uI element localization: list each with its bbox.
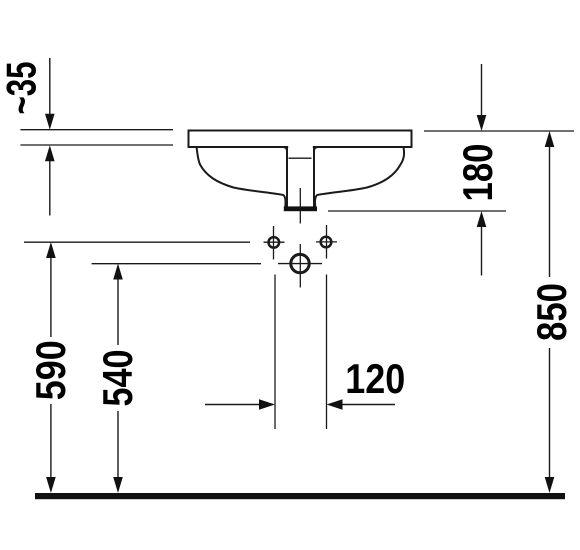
centerline below drain [299, 188, 301, 224]
rim-to-column corner right [314, 147, 318, 151]
rim top extension line right [424, 130, 574, 132]
dim 540 line [113, 264, 123, 494]
sink rim front view [189, 131, 412, 148]
svg-text:850: 850 [528, 283, 575, 341]
drain column right wall [313, 147, 315, 207]
dim 120 right arrow [327, 399, 396, 410]
waste hole level extension line left [92, 263, 261, 265]
svg-text:~35: ~35 [0, 62, 45, 115]
svg-text:540: 540 [94, 350, 141, 407]
large waste hole [291, 254, 309, 272]
dim 120 left arrow [205, 399, 275, 410]
dim ~35 upper arrow [45, 58, 55, 130]
drain column left wall [286, 147, 288, 207]
overflow line inside drain column [289, 157, 312, 159]
left fixing hole [269, 237, 280, 248]
dim 590 line [46, 242, 56, 493]
rim bottom extension line left [20, 144, 173, 146]
svg-text:590: 590 [27, 340, 74, 400]
dim 180 lower arrow [477, 211, 487, 276]
120 extension line left [274, 275, 276, 430]
rim opening into drain column [288, 145, 313, 149]
svg-text:180: 180 [454, 144, 501, 202]
holes level extension line left [24, 241, 250, 243]
sink bowl left outline [197, 147, 286, 207]
floor line [35, 493, 565, 499]
sink bowl right outline [315, 147, 404, 207]
right fixing hole crosshair horizontal [316, 241, 337, 243]
rim top extension line left [20, 129, 173, 131]
large waste hole crosshair horizontal [278, 263, 322, 265]
rim-to-column corner left [283, 147, 287, 151]
right fixing hole [321, 237, 332, 248]
right fixing hole crosshair vertical [326, 225, 328, 259]
dim 850 line [545, 131, 555, 493]
drain bottom extension line right [328, 210, 506, 212]
left fixing hole crosshair vertical [273, 226, 275, 260]
left fixing hole crosshair horizontal [264, 241, 285, 243]
120 extension line right [326, 275, 328, 430]
dim ~35 lower arrow [45, 145, 55, 215]
dim 180 upper arrow [477, 64, 487, 131]
centerline through large hole [299, 244, 301, 288]
drain outlet bar [284, 206, 317, 211]
svg-text:120: 120 [345, 355, 405, 402]
